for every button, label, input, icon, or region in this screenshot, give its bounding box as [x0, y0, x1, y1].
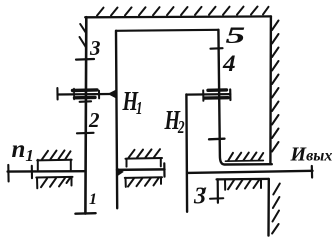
- svg-text:Ивых: Ивых: [290, 144, 333, 166]
- bearing block 1 lower box: [36, 177, 72, 188]
- wedge at wall on H1 stub: [117, 168, 124, 177]
- gear 3' stub cap: [210, 197, 223, 200]
- svg-text:5: 5: [226, 23, 246, 49]
- carrier link top bar (inner rectangle top): [116, 30, 219, 31]
- upper bar: [73, 88, 98, 92]
- left tick: [73, 89, 75, 100]
- output shaft: [187, 171, 312, 173]
- bearing block 1 lower hatching: [41, 178, 70, 187]
- bearing block 2 upper hatching: [129, 149, 161, 158]
- carrier H2 vertical link: [185, 94, 188, 211]
- frame left-top hatching: [80, 24, 87, 47]
- bearing block 2 lower hatching: [128, 177, 159, 186]
- gear 4 / H2 coupling symbol: [186, 90, 230, 101]
- ring 3' hatching: [228, 179, 260, 189]
- bearing block 2 lower box: [125, 177, 162, 187]
- lower bar: [75, 96, 96, 100]
- gear mesh tick (ring 3): [209, 138, 225, 141]
- arm: [186, 93, 230, 96]
- upper bar: [208, 88, 227, 92]
- central shaft bottom cap: [75, 212, 95, 215]
- left tick: [202, 90, 204, 100]
- frame top wall: [85, 15, 271, 18]
- svg-text:2: 2: [88, 108, 100, 132]
- frame right hatching: [272, 21, 280, 234]
- shaft of gears 4-5 (right vertical): [218, 30, 271, 165]
- right cap: [229, 90, 231, 101]
- bearing block 2 upper box: [126, 158, 163, 167]
- input shaft n1: [8, 170, 86, 173]
- frame right wall lower segment: [267, 179, 270, 236]
- gear 2 tick: [77, 132, 94, 135]
- H1 stub shaft: [117, 168, 165, 171]
- H1 stub right cap: [163, 163, 165, 176]
- frame right wall upper segment: [269, 16, 272, 163]
- U-box ground hatching: [228, 153, 263, 161]
- gear 3 tick: [76, 58, 94, 61]
- output shaft right cap: [311, 166, 314, 178]
- carrier link left wall: [116, 31, 117, 209]
- fixed ring ground bar in U-box: [226, 160, 264, 163]
- lower bar: [205, 96, 229, 100]
- input shaft left cap: [7, 165, 9, 182]
- svg-text:1: 1: [89, 191, 97, 208]
- gear 3' stub shaft: [217, 179, 219, 202]
- bearing block 1 upper hatching: [42, 150, 71, 159]
- central shaft (gears 1-2-3): [84, 17, 88, 213]
- gear 5 tick: [211, 47, 223, 50]
- svg-text:4: 4: [222, 51, 236, 77]
- tick below coupling: [80, 100, 91, 103]
- wedge at H1 wall joint: [108, 90, 117, 99]
- svg-text:3: 3: [89, 36, 101, 60]
- input shaft tick: [31, 166, 33, 178]
- svg-text:3′: 3′: [193, 184, 207, 210]
- gear 2 / H1 coupling symbol: [57, 88, 109, 99]
- left cap: [56, 88, 58, 99]
- ring 3' side ticks: [225, 179, 261, 190]
- fixed ring 3' top bar: [217, 178, 269, 181]
- arm: [58, 93, 110, 96]
- bearing block 1 upper box: [37, 160, 71, 170]
- right tick: [98, 91, 100, 99]
- frame top hatching: [97, 7, 269, 16]
